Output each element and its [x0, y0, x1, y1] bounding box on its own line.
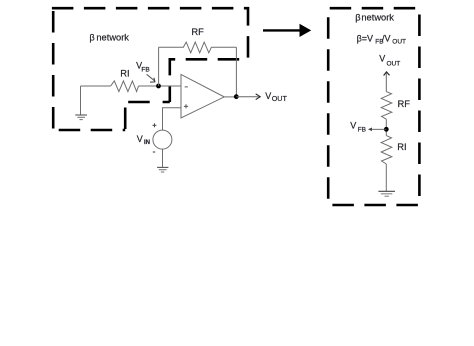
wire: RI right to node VFB — [139, 85, 159, 87]
op-amp U1 — [181, 74, 224, 118]
node VFB (summing junction dot) — [156, 84, 161, 89]
wire: feedback drop to output node — [235, 47, 237, 96]
svg-text:network: network — [96, 32, 129, 42]
svg-text:β=V: β=V — [357, 33, 373, 43]
beta network dashed box (left): notch right edge — [124, 102, 127, 130]
svg-text:V: V — [137, 134, 143, 144]
op-amp non-inverting pin mark — [184, 105, 188, 107]
label: - terminal of VIN — [153, 151, 155, 153]
VFB pointer arrow — [147, 74, 156, 82]
ground (right box) — [378, 191, 395, 196]
svg-text:RF: RF — [191, 26, 204, 37]
resistor RI (right box) — [381, 136, 392, 164]
ground (left input reference) — [75, 115, 87, 120]
svg-text:β: β — [89, 32, 94, 42]
wire: feedback riser from node VFB — [158, 47, 160, 86]
node VFB (right box) — [384, 127, 389, 132]
op-amp inverting pin mark — [185, 86, 188, 88]
beta network dashed box (right) — [328, 8, 419, 205]
resistor RF (right box) — [381, 92, 392, 120]
source VIN — [153, 130, 172, 149]
svg-text:V: V — [379, 54, 385, 64]
label: + terminal of VIN — [153, 123, 157, 127]
svg-text:OUT: OUT — [272, 94, 288, 103]
beta network dashed box (left): notch underline edge — [125, 101, 170, 104]
big arrow between circuits — [263, 24, 311, 37]
ground (VIN) — [157, 167, 168, 172]
svg-text:V: V — [265, 91, 271, 101]
wire: VIN to ground — [162, 149, 164, 167]
wire: feedback top right segment — [211, 46, 236, 48]
wire: non-inverting input from VIN — [163, 108, 182, 130]
svg-text:IN: IN — [144, 140, 150, 146]
wire: ground drop (left input) — [80, 86, 82, 115]
arrow: output to VOUT — [236, 94, 260, 100]
arrow: VOUT direction (up) — [384, 72, 390, 92]
svg-text:V: V — [350, 120, 356, 130]
beta network dashed box (left): top, right and notch edges — [52, 8, 248, 102]
wire: node VFB to op-amp inverting input — [159, 85, 182, 87]
svg-text:β: β — [355, 13, 360, 23]
resistor RI — [111, 81, 139, 92]
wire: feedback top left segment — [159, 46, 184, 48]
beta network dashed box (left): left edge — [52, 8, 55, 130]
svg-text:OUT: OUT — [392, 39, 406, 46]
svg-text:RI: RI — [397, 141, 406, 152]
svg-text:RI: RI — [120, 68, 129, 79]
beta network dashed box (left): bottom edge — [53, 129, 125, 132]
wire: RI bottom to ground (right box) — [385, 164, 387, 191]
svg-text:FB: FB — [141, 66, 149, 73]
wire: op-amp output to output node — [224, 96, 236, 98]
arrow: VFB pointer (right box, pointing left) — [368, 128, 386, 132]
svg-text:RF: RF — [398, 98, 411, 109]
node: output junction dot — [234, 94, 239, 99]
wire: input segment left of RI — [81, 85, 111, 87]
resistor RF — [183, 42, 211, 53]
svg-text:FB: FB — [358, 126, 366, 133]
svg-text:OUT: OUT — [387, 60, 401, 67]
wire: RF bottom to node VFB (right box) — [385, 119, 387, 135]
svg-text:/V: /V — [382, 33, 391, 43]
svg-text:network: network — [361, 13, 394, 23]
